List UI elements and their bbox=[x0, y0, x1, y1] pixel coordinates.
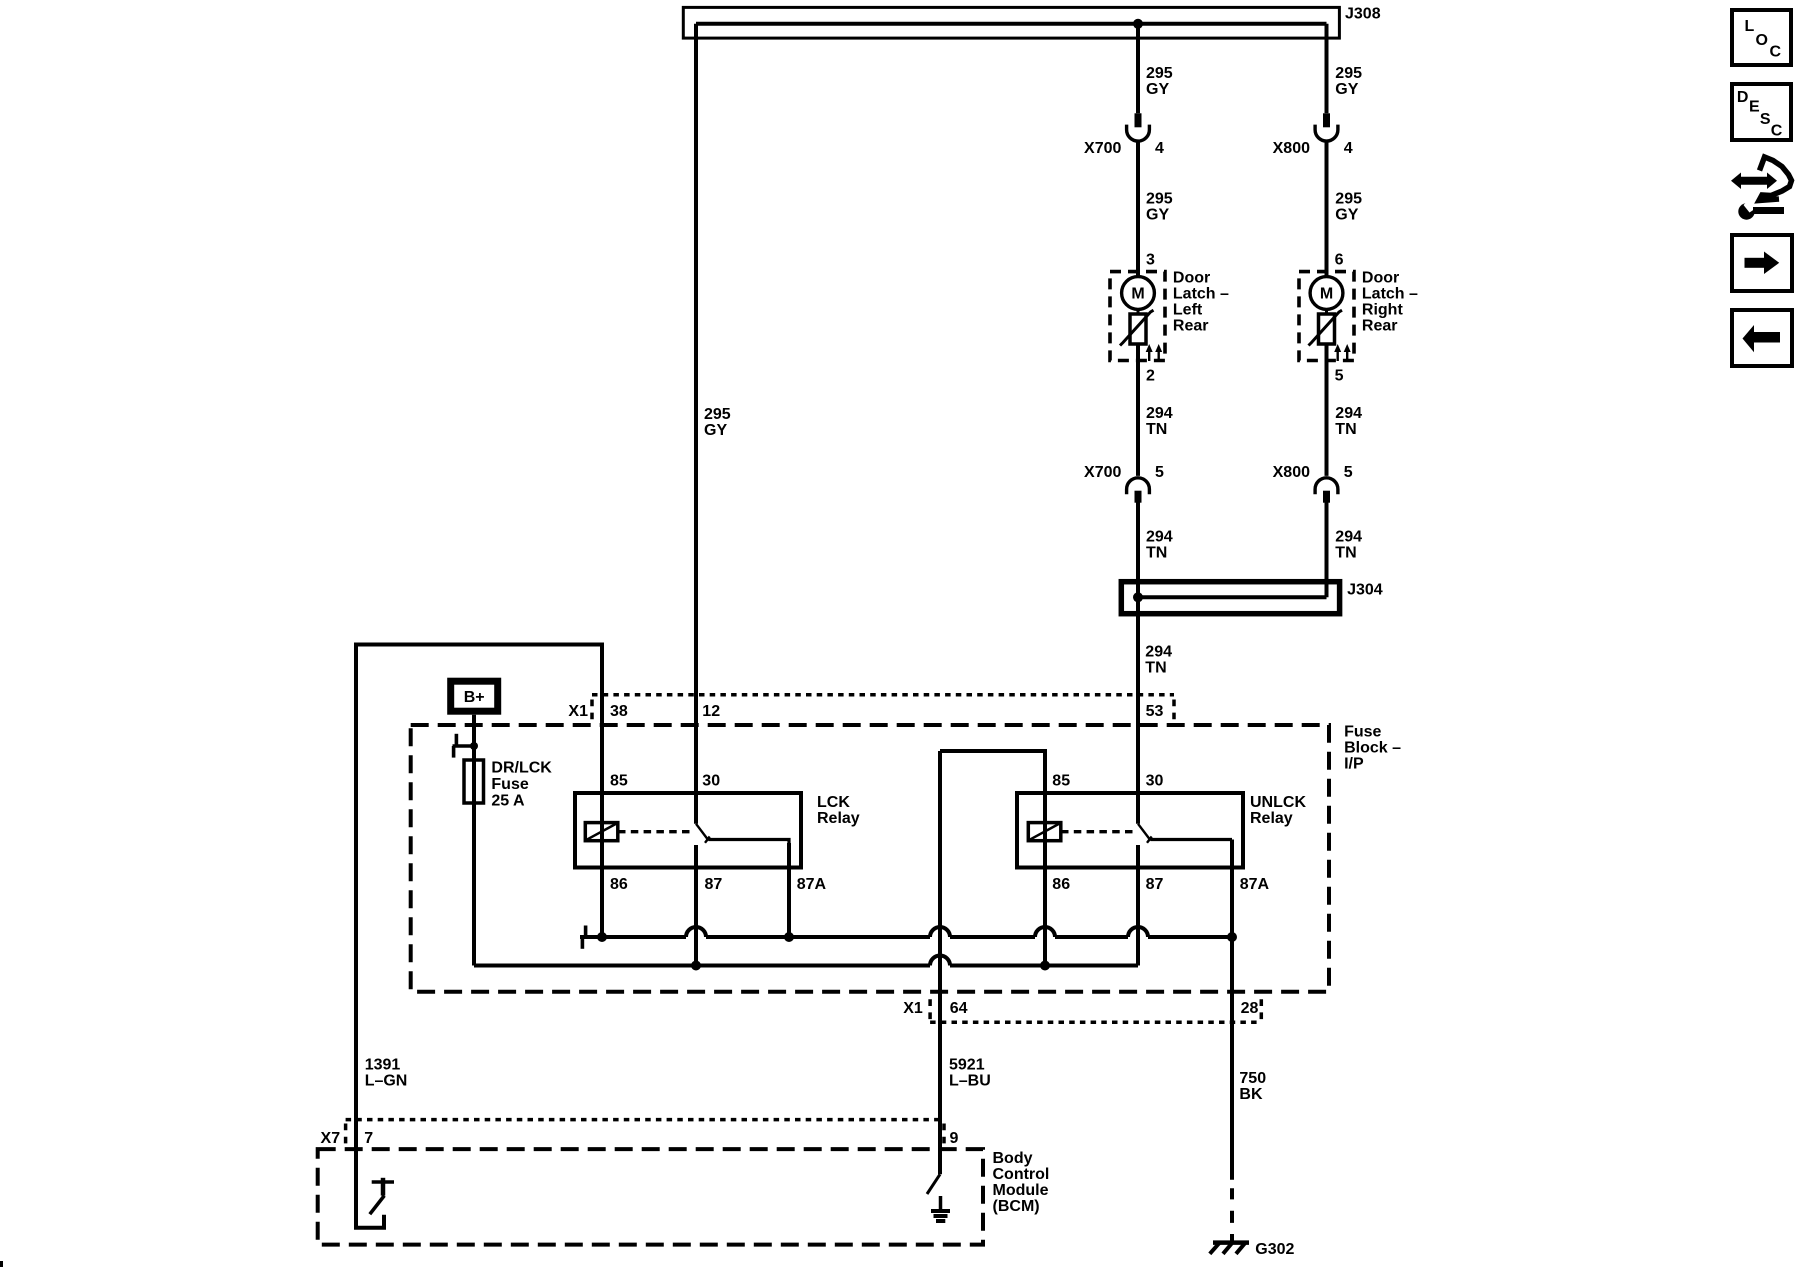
svg-text:L–GN: L–GN bbox=[365, 1072, 408, 1089]
svg-text:X800: X800 bbox=[1273, 464, 1310, 481]
svg-text:Rear: Rear bbox=[1173, 317, 1209, 334]
svg-text:BK: BK bbox=[1239, 1086, 1263, 1103]
svg-text:GY: GY bbox=[1335, 206, 1358, 223]
svg-text:4: 4 bbox=[1155, 140, 1164, 157]
svg-text:295: 295 bbox=[1146, 190, 1173, 207]
svg-text:295: 295 bbox=[1335, 65, 1362, 82]
svg-text:5: 5 bbox=[1344, 464, 1353, 481]
svg-text:G302: G302 bbox=[1255, 1241, 1294, 1258]
svg-text:Door: Door bbox=[1173, 269, 1210, 286]
svg-text:295: 295 bbox=[704, 406, 731, 423]
svg-text:O: O bbox=[1756, 32, 1768, 49]
svg-text:Fuse: Fuse bbox=[1344, 723, 1381, 740]
svg-text:J308: J308 bbox=[1345, 6, 1381, 23]
svg-text:Control: Control bbox=[993, 1166, 1050, 1183]
svg-text:30: 30 bbox=[702, 772, 720, 789]
svg-text:Latch –: Latch – bbox=[1362, 285, 1418, 302]
svg-text:Relay: Relay bbox=[1250, 810, 1293, 827]
svg-text:4: 4 bbox=[1344, 140, 1353, 157]
svg-text:Right: Right bbox=[1362, 301, 1404, 318]
svg-text:Body: Body bbox=[993, 1150, 1033, 1167]
svg-text:86: 86 bbox=[610, 876, 628, 893]
svg-text:12: 12 bbox=[702, 703, 720, 720]
svg-text:87A: 87A bbox=[1240, 876, 1270, 893]
svg-text:53: 53 bbox=[1146, 703, 1164, 720]
svg-text:86: 86 bbox=[1052, 876, 1070, 893]
svg-text:85: 85 bbox=[1052, 772, 1070, 789]
svg-text:2: 2 bbox=[1146, 367, 1155, 384]
svg-text:294: 294 bbox=[1146, 528, 1173, 545]
svg-text:750: 750 bbox=[1239, 1070, 1266, 1087]
svg-text:X1: X1 bbox=[903, 1000, 923, 1017]
svg-text:TN: TN bbox=[1335, 544, 1356, 561]
svg-text:Door: Door bbox=[1362, 269, 1399, 286]
svg-text:Left: Left bbox=[1173, 301, 1203, 318]
svg-text:7: 7 bbox=[364, 1130, 373, 1147]
svg-text:25 A: 25 A bbox=[491, 792, 525, 809]
svg-text:S: S bbox=[1760, 111, 1771, 128]
svg-text:X700: X700 bbox=[1084, 464, 1121, 481]
svg-text:L: L bbox=[1745, 18, 1755, 35]
svg-text:294: 294 bbox=[1335, 405, 1362, 422]
svg-text:M: M bbox=[1131, 286, 1144, 303]
svg-text:X800: X800 bbox=[1273, 140, 1310, 157]
svg-text:30: 30 bbox=[1146, 772, 1164, 789]
svg-text:E: E bbox=[1749, 99, 1760, 116]
svg-text:9: 9 bbox=[950, 1130, 959, 1147]
svg-text:1391: 1391 bbox=[365, 1056, 401, 1073]
svg-text:Relay: Relay bbox=[817, 810, 860, 827]
svg-text:TN: TN bbox=[1145, 660, 1166, 677]
svg-text:294: 294 bbox=[1146, 405, 1173, 422]
svg-text:5921: 5921 bbox=[949, 1056, 985, 1073]
svg-text:GY: GY bbox=[1146, 81, 1169, 98]
svg-text:(BCM): (BCM) bbox=[993, 1198, 1040, 1215]
svg-text:5: 5 bbox=[1335, 367, 1344, 384]
svg-text:UNLCK: UNLCK bbox=[1250, 794, 1306, 811]
svg-text:J304: J304 bbox=[1347, 582, 1383, 599]
svg-text:M: M bbox=[1320, 286, 1333, 303]
svg-text:87A: 87A bbox=[797, 876, 827, 893]
svg-text:Rear: Rear bbox=[1362, 317, 1398, 334]
svg-text:Latch –: Latch – bbox=[1173, 285, 1229, 302]
svg-text:Fuse: Fuse bbox=[491, 776, 528, 793]
svg-text:TN: TN bbox=[1146, 544, 1167, 561]
svg-text:85: 85 bbox=[610, 772, 628, 789]
svg-text:GY: GY bbox=[1335, 81, 1358, 98]
svg-text:C: C bbox=[1770, 44, 1782, 61]
svg-text:GY: GY bbox=[1146, 206, 1169, 223]
svg-text:LCK: LCK bbox=[817, 794, 850, 811]
svg-text:TN: TN bbox=[1146, 421, 1167, 438]
svg-text:GY: GY bbox=[704, 422, 727, 439]
svg-text:28: 28 bbox=[1241, 1000, 1259, 1017]
svg-text:C: C bbox=[1771, 123, 1783, 140]
svg-text:L–BU: L–BU bbox=[949, 1072, 991, 1089]
svg-text:I/P: I/P bbox=[1344, 755, 1364, 772]
svg-text:295: 295 bbox=[1335, 190, 1362, 207]
svg-text:3: 3 bbox=[1146, 251, 1155, 268]
svg-text:295: 295 bbox=[1146, 65, 1173, 82]
svg-text:X7: X7 bbox=[321, 1130, 341, 1147]
svg-text:5: 5 bbox=[1155, 464, 1164, 481]
svg-text:87: 87 bbox=[1146, 876, 1164, 893]
svg-text:87: 87 bbox=[705, 876, 723, 893]
svg-text:D: D bbox=[1737, 89, 1749, 106]
svg-text:TN: TN bbox=[1335, 421, 1356, 438]
svg-text:Module: Module bbox=[993, 1182, 1049, 1199]
svg-text:6: 6 bbox=[1335, 251, 1344, 268]
svg-text:X1: X1 bbox=[568, 703, 588, 720]
svg-text:64: 64 bbox=[950, 1000, 968, 1017]
svg-text:B+: B+ bbox=[464, 689, 485, 706]
svg-text:294: 294 bbox=[1335, 528, 1362, 545]
svg-text:X700: X700 bbox=[1084, 140, 1121, 157]
svg-text:DR/LCK: DR/LCK bbox=[491, 759, 552, 776]
svg-text:38: 38 bbox=[610, 703, 628, 720]
svg-text:294: 294 bbox=[1145, 644, 1172, 661]
svg-text:Block –: Block – bbox=[1344, 739, 1401, 756]
